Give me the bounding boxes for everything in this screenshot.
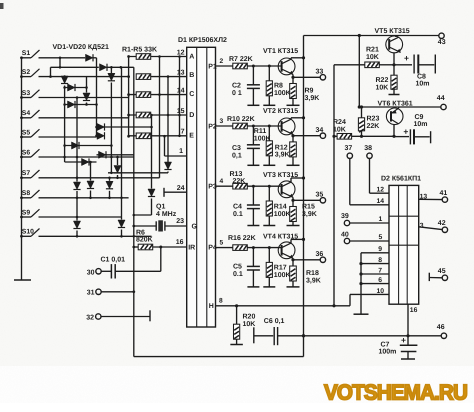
label R8: [274, 83, 291, 97]
terminal 42: [419, 220, 448, 233]
svg-text:31: 31: [87, 290, 95, 297]
switch S8: [20, 190, 39, 199]
matrix column x77 mid: [76, 191, 78, 221]
label R18: [306, 270, 321, 284]
terminal 44: [437, 95, 446, 110]
wire D2 pin 6: [359, 277, 389, 285]
wire output 33: [293, 76, 320, 78]
wire S6 row: [39, 156, 134, 159]
ground (C3): [247, 164, 259, 166]
matrix column x109.5: [109, 178, 111, 181]
capacitor C1: [101, 264, 161, 278]
matrix column x64.6: [63, 77, 66, 162]
svg-text:3: 3: [220, 118, 224, 125]
label R14: [274, 204, 291, 218]
svg-text:5: 5: [220, 239, 224, 246]
capacitor C8: [394, 53, 435, 74]
watermark votshema.ru: [324, 381, 467, 405]
svg-text:9: 9: [378, 246, 382, 253]
wire D2 pin 16: [406, 304, 417, 337]
svg-text:R17: R17: [274, 265, 287, 272]
resistor R16 row: [216, 239, 282, 250]
svg-text:10K: 10K: [376, 84, 389, 91]
svg-text:10K: 10K: [366, 54, 379, 61]
svg-text:IR: IR: [188, 244, 195, 251]
svg-text:VOTSHEMA.RU: VOTSHEMA.RU: [324, 381, 467, 405]
wire pin10 step: [349, 294, 351, 305]
label R9: [305, 88, 320, 102]
resistor R13 row: [216, 178, 282, 189]
terminal 37: [345, 145, 353, 158]
wire S8 row: [39, 197, 129, 200]
svg-text:R18: R18: [306, 270, 319, 277]
matrix column x117.5 end: [117, 175, 119, 178]
svg-text:B: B: [189, 72, 194, 79]
svg-text:10m: 10m: [414, 121, 428, 128]
svg-text:D2 К561КП1: D2 К561КП1: [381, 176, 421, 183]
svg-text:R8: R8: [274, 83, 283, 90]
resistor R6 820K: [134, 244, 187, 250]
wire row y145: [65, 145, 112, 147]
capacitor C7: [400, 335, 418, 359]
wire row2: [51, 66, 99, 68]
wire output 35: [293, 199, 320, 201]
diode VD20: [164, 162, 171, 170]
svg-text:R6: R6: [136, 230, 145, 237]
ground (R20): [230, 344, 243, 346]
wire pin1 row: [165, 148, 187, 156]
label C2: [232, 83, 242, 97]
svg-text:S3: S3: [22, 90, 31, 97]
resistor R8: [266, 66, 272, 105]
label C4: [233, 204, 243, 218]
svg-text:1: 1: [379, 216, 383, 223]
ground (R18): [287, 286, 300, 288]
terminal 43: [438, 33, 446, 46]
svg-text:S9: S9: [22, 209, 31, 216]
label C6: [264, 318, 285, 325]
svg-text:S7: S7: [22, 170, 31, 177]
pin letter D: [189, 112, 194, 119]
resistor R2 row pin 13: [136, 69, 187, 79]
wire H row: [216, 304, 351, 307]
wire row y155: [97, 154, 134, 156]
svg-text:12: 12: [377, 187, 385, 194]
diode VD11: [82, 158, 90, 165]
terminal 40: [341, 231, 389, 243]
diode VD16: [106, 181, 113, 189]
svg-text:S5: S5: [22, 129, 31, 136]
svg-text:VT2 КТ315: VT2 КТ315: [263, 108, 298, 115]
collector rail: [303, 36, 305, 336]
transistor VT1: [278, 58, 295, 75]
svg-text:R7 22K: R7 22K: [229, 56, 253, 63]
wire R21 row: [334, 64, 365, 66]
diode VD8 (row E): [97, 132, 105, 139]
port label P2: [208, 123, 217, 130]
svg-text:D: D: [189, 112, 194, 119]
matrix column x151.5 end: [151, 199, 153, 216]
resistor R24 10K: [337, 134, 396, 140]
node C6-rail: [302, 334, 305, 337]
matrix column x151.5: [150, 114, 153, 189]
wire VT3 emitter: [291, 197, 294, 202]
wire D2 pin 9: [361, 246, 389, 253]
label R20: [243, 314, 256, 328]
svg-text:15: 15: [177, 108, 185, 115]
ground (R12): [287, 164, 300, 166]
wire VT1 collector: [291, 56, 305, 59]
terminal 45: [429, 268, 447, 281]
matrix column x96.5: [95, 67, 98, 137]
label R24: [333, 119, 346, 133]
diode VD4: [108, 73, 115, 81]
svg-text:0.1: 0.1: [233, 211, 243, 218]
label R22: [376, 77, 389, 91]
resistor R15: [290, 200, 297, 225]
switch S4: [20, 110, 39, 119]
svg-text:38: 38: [364, 145, 372, 152]
svg-text:100K: 100K: [254, 136, 271, 143]
svg-text:40: 40: [341, 231, 349, 238]
ground (C5): [247, 286, 259, 288]
terminal 46: [437, 324, 447, 338]
resistor R17: [266, 248, 272, 287]
wire S4 row: [39, 115, 129, 118]
label VT4: [263, 234, 298, 241]
matrix column x121.5: [120, 67, 123, 219]
matrix column x168 end: [167, 172, 169, 173]
diode VD14: [83, 93, 90, 101]
pin letter E: [189, 133, 194, 140]
svg-text:10: 10: [376, 288, 384, 295]
svg-text:820K: 820K: [136, 237, 153, 244]
wire VT5 to VT6 drop: [358, 36, 361, 109]
label VT1: [263, 48, 298, 55]
svg-text:R16 22K: R16 22K: [228, 235, 256, 242]
label D2 pin 1: [379, 216, 383, 223]
label VT5: [375, 28, 410, 35]
capacitor C3: [247, 126, 260, 165]
crystal Q1: [134, 220, 187, 231]
svg-text:S6: S6: [22, 149, 31, 156]
wire VT1 emitter: [291, 74, 294, 79]
port label P1: [208, 63, 217, 70]
wire VT4 collector: [291, 238, 305, 243]
capacitor C4: [247, 186, 260, 225]
svg-text:R14: R14: [274, 204, 287, 211]
svg-text:41: 41: [440, 190, 448, 197]
terminal 31: [87, 289, 134, 297]
svg-text:45: 45: [438, 268, 446, 275]
terminal 34: [316, 127, 326, 139]
svg-text:30: 30: [87, 269, 95, 276]
port label P4: [208, 244, 217, 251]
wire output 36: [293, 259, 320, 261]
svg-text:3,9K: 3,9K: [302, 211, 317, 218]
label D2 pin 12: [377, 187, 385, 194]
ground (D2 inputs): [354, 313, 369, 315]
pin letter C: [189, 91, 194, 98]
ground (C4): [247, 225, 259, 227]
resistor R9: [290, 77, 297, 105]
port label P3: [208, 184, 217, 191]
label C9: [414, 114, 428, 128]
diode VD9: [72, 142, 80, 149]
wire R24 feed drop: [333, 65, 335, 306]
svg-text:VD1-VD20 КД521: VD1-VD20 КД521: [53, 44, 109, 51]
svg-text:E: E: [189, 133, 194, 140]
capacitor C6: [254, 327, 304, 345]
label VD1-VD20: [53, 44, 109, 51]
svg-text:P2: P2: [208, 123, 217, 130]
resistor R21 10K: [365, 62, 394, 68]
wire row y172: [108, 172, 168, 175]
label VT3: [263, 172, 298, 179]
svg-text:A: A: [189, 53, 194, 60]
svg-text:G: G: [192, 223, 198, 230]
svg-text:14: 14: [377, 198, 385, 205]
switch S2: [20, 69, 39, 78]
wire S7 row: [39, 177, 160, 180]
label R16: [228, 235, 256, 242]
svg-text:C9: C9: [415, 114, 424, 121]
wire bottom return: [134, 336, 304, 357]
svg-text:24: 24: [177, 185, 185, 192]
svg-text:14: 14: [177, 87, 185, 94]
svg-text:R22: R22: [376, 77, 389, 84]
svg-text:R24: R24: [333, 119, 346, 126]
svg-text:D1 КР1506ХЛ2: D1 КР1506ХЛ2: [178, 37, 227, 44]
svg-text:100K: 100K: [274, 272, 291, 279]
matrix column x60: [59, 57, 62, 69]
ground (R17): [263, 286, 275, 288]
svg-text:+: +: [403, 127, 408, 137]
wire row2 right: [107, 66, 134, 69]
wire VT3 collector: [291, 176, 305, 182]
diode VD17: [114, 166, 121, 174]
label D2: [381, 176, 421, 183]
label D2 pin 14: [377, 198, 385, 205]
svg-text:0,1: 0,1: [232, 152, 242, 159]
transistor VT6: [386, 107, 403, 136]
wire D2 pin 8: [359, 257, 389, 265]
svg-text:32: 32: [86, 314, 94, 321]
svg-text:100K: 100K: [274, 211, 291, 218]
ground (bus bottom): [14, 279, 31, 282]
wire base row VT6: [332, 135, 337, 138]
wire row y162: [65, 161, 97, 163]
wire D2 pin 7: [359, 267, 389, 275]
label C1: [101, 257, 126, 264]
label D2 pin 3: [420, 223, 424, 230]
wire VD1 to corner: [93, 58, 96, 68]
wire 37 to pin14: [350, 159, 389, 205]
svg-text:13: 13: [177, 69, 185, 76]
matrix column x164.5: [163, 135, 166, 156]
svg-text:R21: R21: [366, 47, 379, 54]
svg-text:C: C: [189, 91, 194, 98]
diode VD10: [99, 151, 107, 158]
switch S3: [20, 90, 39, 99]
svg-text:8: 8: [378, 257, 382, 264]
svg-text:22K: 22K: [233, 178, 246, 185]
terminal 39: [341, 213, 389, 226]
label R13: [230, 171, 243, 178]
transistor VT4: [278, 242, 295, 259]
wire S2 riser: [50, 67, 52, 76]
svg-text:16: 16: [410, 307, 418, 314]
svg-text:C5: C5: [233, 264, 242, 271]
capacitor C9: [394, 127, 431, 145]
resistor R4 row pin 15: [129, 108, 187, 118]
svg-text:P1: P1: [208, 63, 217, 70]
svg-text:VT5 КТ315: VT5 КТ315: [375, 28, 410, 35]
diode VD1: [86, 54, 94, 61]
wire S5 row: [39, 136, 97, 137]
svg-text:Q1: Q1: [156, 204, 165, 211]
capacitor C5: [247, 248, 260, 287]
matrix column x109.5 end: [109, 191, 111, 198]
svg-text:+: +: [401, 335, 406, 345]
wire VT2 emitter: [291, 134, 294, 137]
ground (R14): [263, 225, 275, 227]
resistor R3 row pin 14: [129, 87, 187, 97]
diode VD2: [100, 64, 108, 71]
label C7: [379, 341, 397, 355]
svg-text:3,9K: 3,9K: [305, 95, 320, 102]
wire VT5 emitter: [392, 53, 395, 67]
matrix column x111.4: [110, 67, 113, 173]
diode VD13: [73, 221, 80, 229]
svg-text:R10 22K: R10 22K: [227, 116, 255, 123]
resistor R18: [290, 260, 297, 287]
label C8: [416, 74, 430, 88]
pin letter A: [189, 53, 194, 60]
wire VT4 emitter: [291, 258, 294, 261]
svg-text:10K: 10K: [243, 321, 256, 328]
svg-text:0 1: 0 1: [232, 90, 242, 97]
label R17: [274, 265, 291, 279]
svg-text:S10: S10: [22, 229, 34, 236]
diode VD12: [73, 182, 80, 190]
pin letter G: [192, 223, 198, 230]
wire row y215: [134, 214, 152, 216]
terminal 36: [316, 251, 326, 262]
matrix column x90.5 end: [90, 191, 92, 198]
matrix column x77 top: [76, 98, 78, 182]
matrix column x168: [167, 75, 170, 162]
diode VD19: [148, 189, 155, 197]
label C5: [233, 264, 243, 278]
svg-text:R1-R5 33K: R1-R5 33K: [122, 47, 157, 54]
svg-text:7: 7: [378, 267, 382, 274]
svg-text:22K: 22K: [367, 123, 380, 130]
svg-text:S1: S1: [22, 50, 31, 57]
resistor R23 22K: [358, 105, 364, 136]
switch bus wire: [21, 58, 23, 280]
label Q1: [156, 204, 177, 218]
matrix column x159.5: [158, 55, 161, 178]
scan corner mark: [0, 3, 4, 9]
svg-text:3: 3: [420, 223, 424, 230]
matrix column x117.5: [117, 157, 119, 165]
label R1-R5 33K: [122, 47, 157, 54]
ground (R15): [287, 225, 300, 227]
wire D2 pin 10: [350, 288, 389, 295]
svg-text:7: 7: [181, 129, 185, 136]
matrix column x179.5: [178, 55, 181, 137]
svg-text:42: 42: [438, 220, 446, 227]
svg-text:H: H: [209, 303, 214, 310]
label C3: [232, 145, 242, 159]
switch S5: [20, 129, 39, 138]
svg-text:37: 37: [345, 145, 353, 152]
ground (R11): [263, 164, 275, 166]
svg-text:R20: R20: [243, 314, 256, 321]
label D2 pin 5: [379, 234, 383, 241]
label R6: [136, 230, 153, 244]
matrix column x128.6 (R left bus): [127, 55, 130, 138]
resistor R11: [266, 126, 272, 165]
resistor R14: [266, 186, 272, 225]
wire 16 junction drop: [160, 247, 162, 271]
svg-text:S4: S4: [22, 110, 31, 117]
svg-text:VT6 КТ361: VT6 КТ361: [378, 100, 413, 107]
switch S10: [20, 229, 39, 238]
svg-text:R12: R12: [275, 144, 288, 151]
label pin16: [176, 239, 184, 246]
label R15: [302, 204, 317, 218]
wire row y127: [97, 126, 152, 128]
wire 38 to pin12: [370, 159, 390, 194]
label R11: [254, 128, 271, 142]
svg-text:1: 1: [179, 148, 183, 155]
wire output 34: [293, 135, 320, 137]
svg-text:P3: P3: [208, 184, 217, 191]
wire row y87: [65, 87, 87, 89]
resistor R22 10K: [391, 65, 397, 94]
matrix column x90.5: [89, 161, 92, 181]
svg-text:C7: C7: [381, 341, 390, 348]
matrix column x86.5: [85, 77, 88, 93]
diode VD15: [87, 181, 94, 189]
label R12: [275, 144, 290, 158]
label R10: [227, 116, 255, 123]
resistor R20 10K: [234, 306, 240, 345]
pin letter IR: [188, 244, 195, 251]
transistor VT3: [278, 181, 295, 198]
svg-text:23: 23: [176, 218, 184, 225]
svg-text:5: 5: [379, 234, 383, 241]
transistor VT2: [278, 118, 295, 135]
svg-text:S2: S2: [22, 69, 31, 76]
wire S2 row: [39, 75, 129, 78]
diode VD6: [68, 101, 76, 108]
svg-text:R23: R23: [367, 116, 380, 123]
IC D1 КР1506ХЛ2 box: [187, 47, 216, 327]
diode VD3: [61, 76, 68, 84]
label VT2: [263, 108, 298, 115]
label D1: [178, 37, 227, 44]
svg-text:6: 6: [378, 277, 382, 284]
svg-text:100m: 100m: [379, 348, 397, 355]
label pin23: [176, 218, 184, 225]
switch S7: [20, 170, 39, 179]
svg-text:8: 8: [219, 297, 223, 304]
wire S1 row: [39, 57, 86, 59]
top supply rail: [304, 34, 439, 37]
